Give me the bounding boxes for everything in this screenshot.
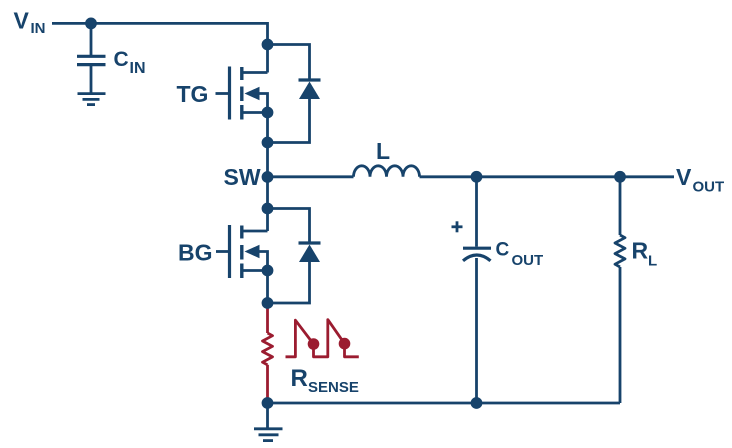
svg-text:OUT: OUT: [693, 179, 725, 196]
svg-text:BG: BG: [178, 239, 213, 265]
ground (main): [254, 429, 283, 441]
node ground junction: [262, 397, 274, 409]
capacitor C_OUT: [463, 248, 491, 403]
svg-text:IN: IN: [31, 20, 46, 37]
node VIN/CIN junction: [85, 18, 97, 30]
node COUT bottom junction: [471, 397, 483, 409]
node SW junction: [262, 171, 274, 183]
wire VIN top rail: [52, 23, 268, 72]
resistor R_L: [615, 177, 625, 403]
svg-text:C: C: [114, 48, 129, 71]
svg-text:IN: IN: [130, 60, 146, 77]
svg-text:L: L: [648, 252, 657, 269]
label VIN: [14, 8, 46, 38]
node TG diode anode junction: [262, 137, 274, 149]
inductor L: [354, 166, 420, 177]
diode D1 (TG body diode): [268, 45, 321, 143]
label RL: [632, 238, 658, 270]
current waveform icon (red): [286, 320, 359, 357]
node COUT top junction: [471, 171, 483, 183]
svg-text:SW: SW: [224, 164, 261, 190]
svg-text:V: V: [14, 8, 30, 34]
transistor Q1 TG MOSFET: [216, 67, 268, 120]
node VOUT junction: [614, 171, 626, 183]
wire bottom rail: [268, 402, 621, 405]
wire SW to inductor: [268, 175, 354, 178]
svg-text:C: C: [496, 240, 510, 261]
resistor R_SENSE (red): [263, 303, 273, 403]
svg-text:R: R: [291, 365, 308, 392]
label RSENSE: [291, 365, 359, 396]
node TG drain junction: [262, 39, 274, 51]
svg-text:L: L: [376, 138, 390, 164]
node BG diode cathode junction: [262, 203, 274, 215]
wire BG source down: [266, 271, 269, 305]
label COUT: [496, 240, 544, 270]
node BG diode anode junction: [262, 297, 274, 309]
svg-text:R: R: [632, 238, 649, 264]
transistor Q2 BG MOSFET: [216, 225, 268, 278]
plus sign (C_OUT polarity): [452, 221, 463, 232]
diode D2 (BG body diode): [268, 209, 321, 304]
ground (C_IN): [78, 94, 106, 105]
label VOUT: [676, 164, 724, 196]
svg-text:TG: TG: [177, 81, 209, 107]
node TG source junction: [262, 107, 274, 119]
svg-text:SENSE: SENSE: [308, 379, 359, 396]
wire ground stub: [266, 403, 269, 428]
wire inductor to VOUT: [420, 175, 675, 178]
wire TG source to SW: [266, 113, 269, 232]
wire CIN drop: [90, 23, 93, 56]
svg-text:OUT: OUT: [512, 252, 544, 269]
node BG source junction: [262, 265, 274, 277]
svg-text:V: V: [676, 164, 692, 190]
capacitor C_IN: [77, 56, 106, 93]
capacitor C_OUT drop wire: [475, 177, 478, 247]
label CIN: [114, 48, 146, 77]
